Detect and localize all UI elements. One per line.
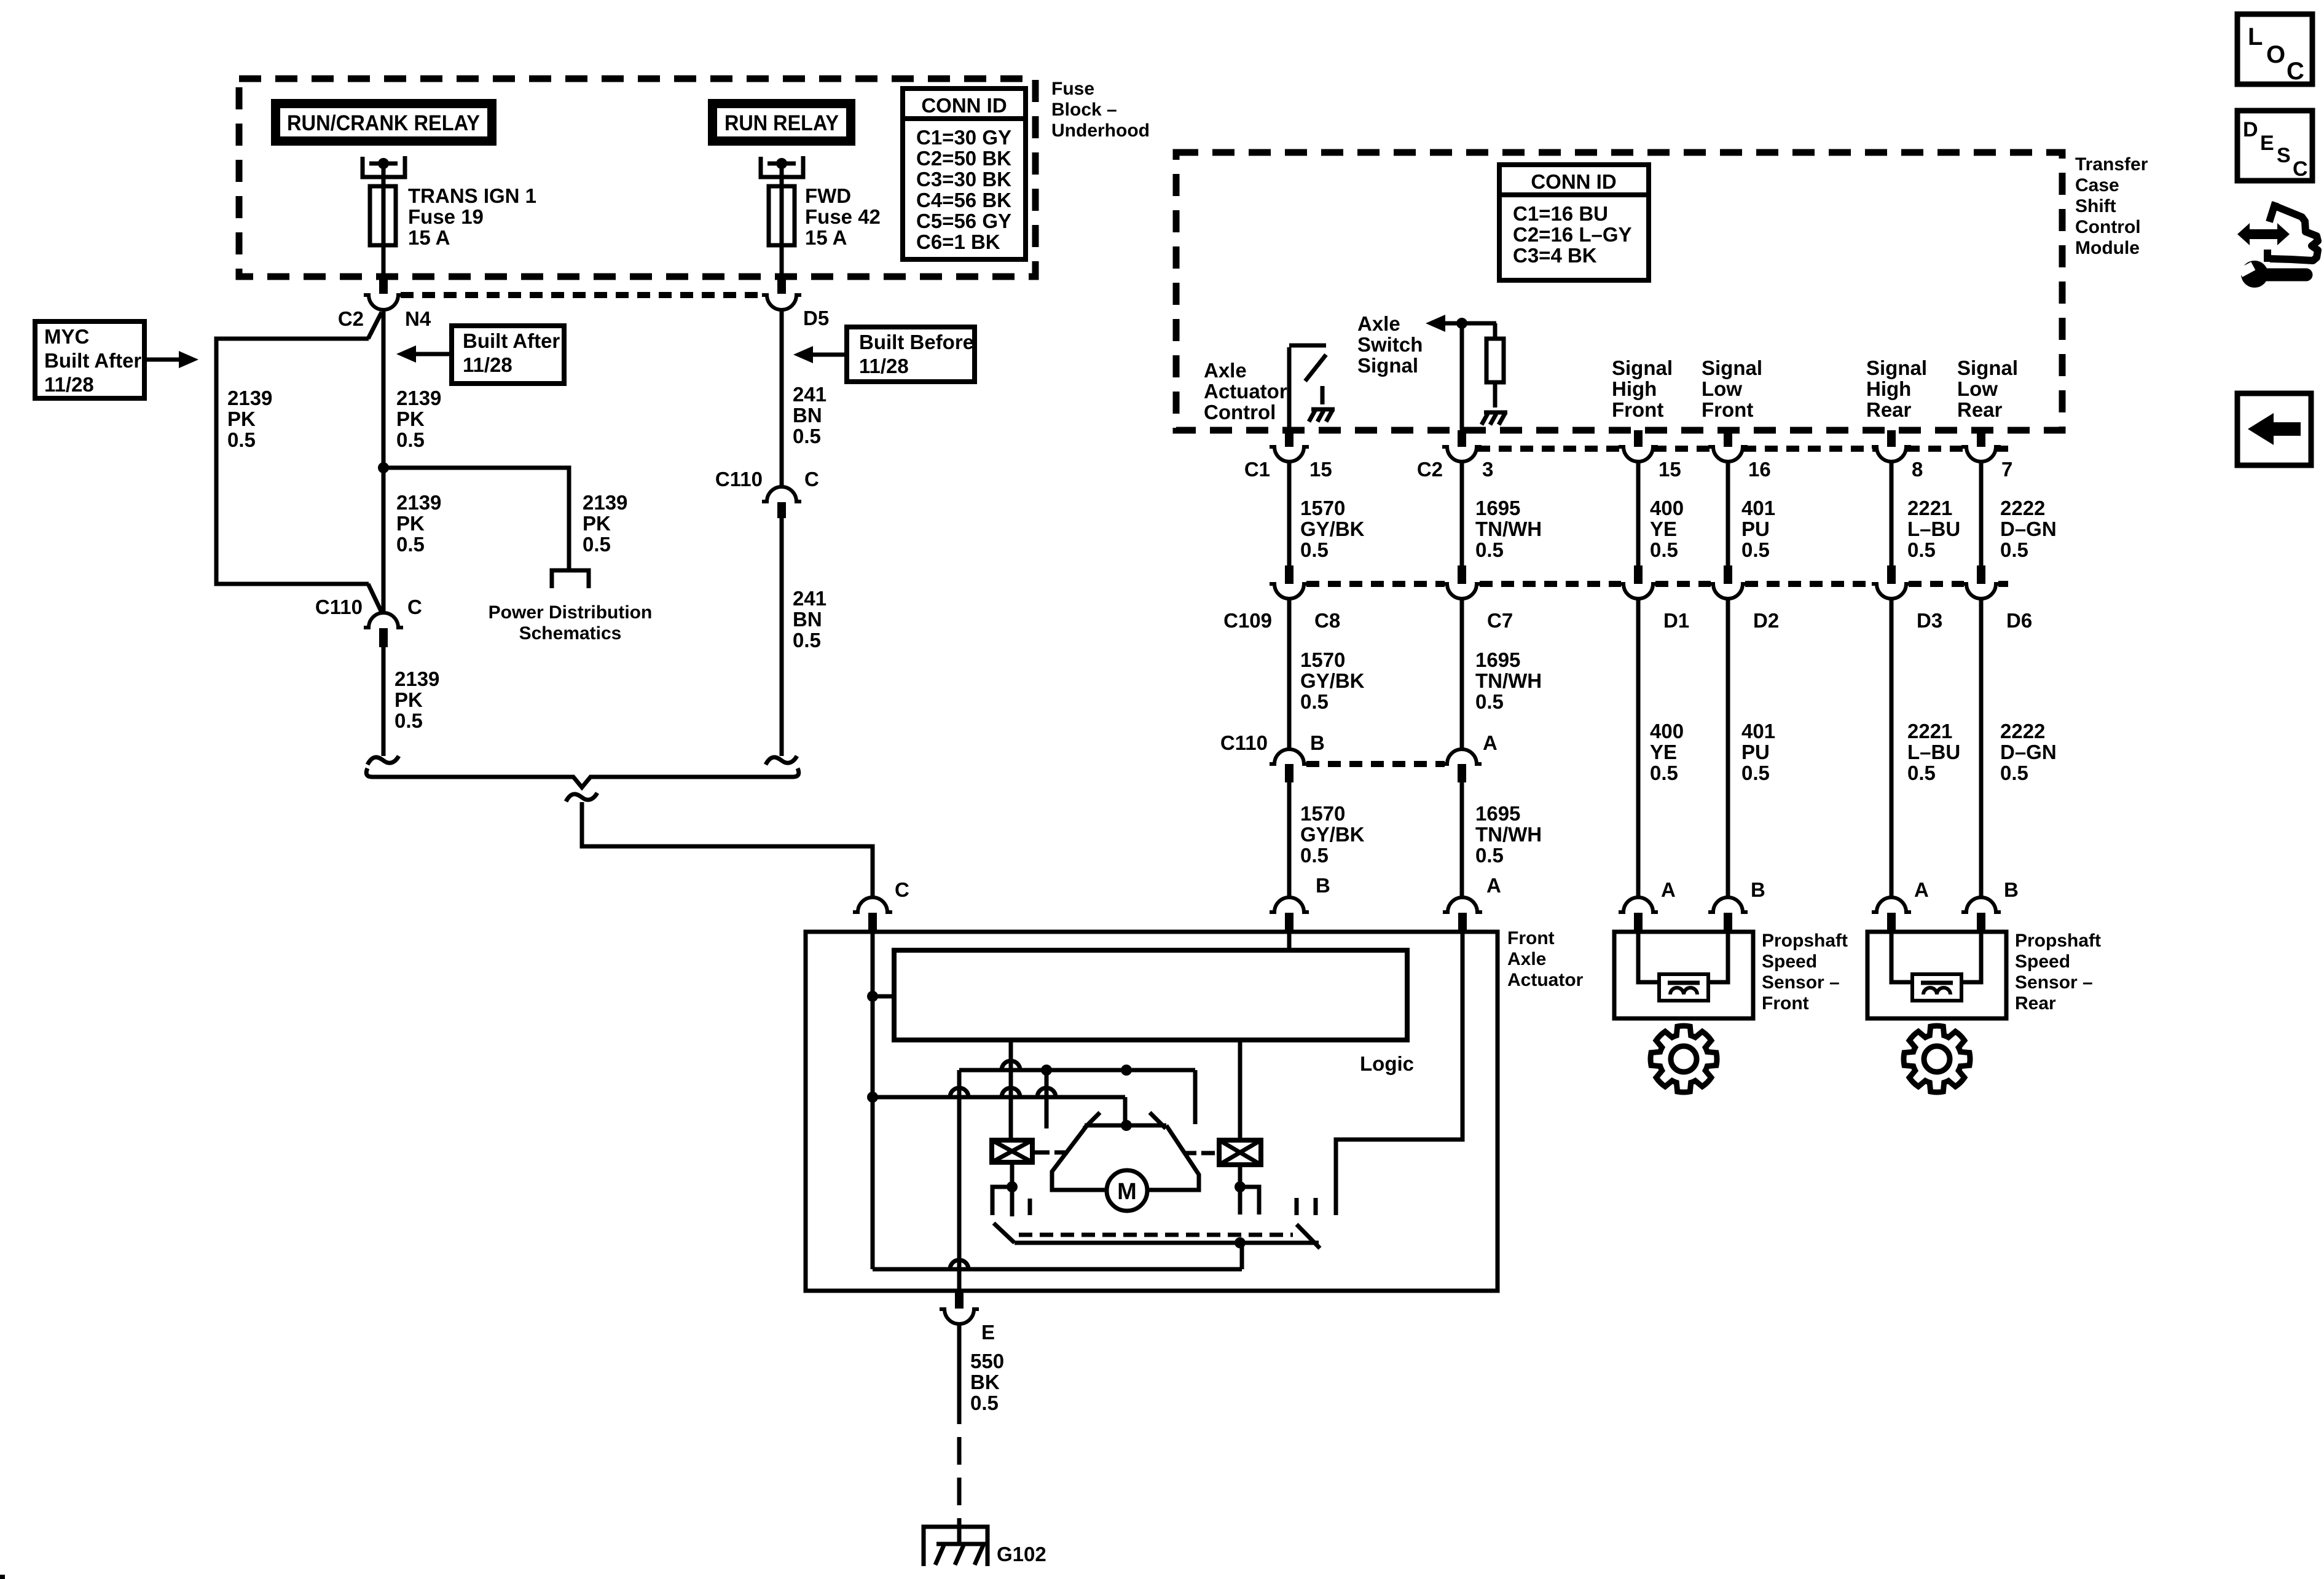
arrow MYC to wire [144, 358, 181, 362]
wire 2139 PK branch to power distribution [383, 468, 569, 570]
connector pin stub at 3078 transfer row [1887, 430, 1896, 447]
wire H3 to lower bar [1240, 1243, 1244, 1269]
svg-text:D: D [2243, 118, 2258, 141]
wire left contact hang [1045, 1070, 1049, 1128]
connector C110 dome A [1442, 749, 1482, 764]
motor M1 [1107, 1170, 1147, 1211]
wire column x2098 upper [1287, 462, 1292, 565]
wire fuse F19 to pin C2 [382, 245, 386, 278]
wire 401 PU long [1726, 599, 1730, 897]
wire column x2379 upper [1460, 462, 1464, 565]
connector pin stub A [1458, 764, 1466, 782]
wire C internal vertical [871, 932, 875, 1269]
connector pin stub C7 [1458, 565, 1466, 584]
svg-text:15: 15 [1659, 458, 1681, 481]
wire column x2666 upper [1636, 462, 1641, 565]
front axle actuator box [806, 932, 1498, 1291]
wire left valve to contacts [1010, 1162, 1015, 1216]
relay K2 output pin bracket [761, 156, 803, 177]
wire B internal [1287, 932, 1292, 950]
gear icon Front [1651, 1026, 1717, 1092]
connector pin stub D2 [1724, 565, 1732, 584]
icon connector outline [2267, 202, 2318, 262]
svg-text:C: C [804, 468, 819, 490]
svg-text:N4: N4 [405, 307, 431, 330]
connector pin stub C actuator [868, 913, 877, 932]
svg-text:A: A [1483, 731, 1498, 754]
fuse F19 TRANS IGN 1 15A [370, 186, 396, 245]
connector C110 dome B [1270, 749, 1309, 764]
wire H1 to motor bar [1123, 1097, 1128, 1125]
motor frame left [1052, 1125, 1107, 1190]
connector terminal 16 transfer row [1708, 447, 1748, 462]
connector pin stub D3 [1887, 565, 1896, 584]
propshaft speed sensor Front box [1614, 932, 1753, 1018]
splice brace [366, 768, 799, 787]
connector pin stub B sensor Rear [1977, 913, 1985, 932]
icon LOC box [2237, 14, 2312, 84]
lower contact bar [1015, 1241, 1319, 1245]
wire resistor to ground [1493, 382, 1498, 408]
dashed connector line transfer row [1477, 446, 1623, 452]
wire 1695 TN/WH lower [1460, 782, 1464, 897]
connector terminal B sensor Rear [1961, 897, 2001, 912]
connector pin stub at 2666 transfer row [1634, 430, 1643, 447]
connector pin stub A sensor Front [1634, 913, 1643, 932]
fuse F42 FWD 15A [769, 186, 795, 245]
wire break symbol center [566, 793, 597, 801]
icon connector view arrow [2248, 229, 2279, 239]
connector pin stub B [1285, 764, 1294, 782]
svg-text:C7: C7 [1487, 609, 1513, 632]
svg-text:Power Distribution: Power Distribution [489, 602, 653, 623]
contact post right extra 2 [1314, 1198, 1318, 1215]
icon back arrow box [2237, 393, 2311, 465]
sensor Front internal wires [1638, 932, 1659, 982]
wire column x3224 upper [1979, 462, 1984, 565]
wire A internal [1336, 932, 1462, 1215]
contact bracket left [992, 1187, 1012, 1215]
wire to resistor [1493, 323, 1498, 339]
wire axle switch signal vertical [1460, 323, 1464, 430]
fuse block underhood dashed enclosure [239, 79, 1035, 277]
svg-text:G102: G102 [997, 1543, 1046, 1565]
junction dot motor bar [1121, 1120, 1132, 1131]
wire 2139 PK main vertical [382, 310, 386, 613]
svg-text:C1: C1 [1244, 458, 1270, 481]
connector terminal A sensor Rear [1872, 897, 1911, 912]
connector terminal C7 [1442, 584, 1482, 599]
transfer case shift control module dashed enclosure [1176, 152, 2062, 430]
connector pin stub B actuator [1285, 913, 1294, 932]
svg-text:A: A [1914, 878, 1929, 901]
hop H1 over contact wire [1037, 1088, 1056, 1097]
transfer case CONN ID table [1499, 165, 1649, 280]
svg-text:B: B [2004, 878, 2019, 901]
connector pin stub B sensor Front [1724, 913, 1732, 932]
connector pin stub D1 [1634, 565, 1643, 584]
svg-text:E: E [2260, 132, 2274, 155]
svg-text:CONN ID: CONN ID [1531, 170, 1616, 193]
contact blade lower right [1297, 1224, 1320, 1248]
junction dot right contact [1235, 1181, 1246, 1192]
wire H1 rail [873, 1095, 1125, 1100]
svg-text:A: A [1486, 874, 1501, 897]
wire relay K2 to fuse F42 [780, 163, 784, 186]
wire H0 corner to E [957, 1070, 962, 1291]
icon DESC box [2237, 111, 2312, 181]
connector C110 dome left [364, 613, 403, 628]
svg-text:Schematics: Schematics [519, 623, 622, 644]
wire column x3078 upper [1890, 462, 1894, 565]
svg-text:7: 7 [2001, 458, 2012, 481]
wire 400 YE long [1636, 599, 1641, 897]
svg-text:Logic: Logic [1360, 1052, 1414, 1075]
svg-text:RUN RELAY: RUN RELAY [724, 111, 839, 135]
contact blade top left [1084, 1112, 1100, 1128]
svg-text:D3: D3 [1917, 609, 1942, 632]
corner artifact mark [0, 1575, 5, 1579]
relay K1 output pin bracket [363, 156, 405, 177]
contact post right extra 1 [1295, 1198, 1299, 1215]
motor reversing bar top [1085, 1124, 1166, 1128]
connector pin stub C110 right [777, 502, 786, 518]
wire 1570 GY/BK lower [1287, 782, 1292, 897]
wire C to logic box [873, 994, 894, 999]
connector terminal C8 [1270, 584, 1309, 599]
svg-text:C110: C110 [715, 468, 763, 490]
junction dot left contact [1007, 1181, 1018, 1192]
svg-text:D2: D2 [1753, 609, 1779, 632]
connector C110 dome right [762, 487, 801, 502]
axle switch signal arrow [1445, 321, 1496, 326]
connector terminal D2 [1708, 584, 1748, 599]
wire 2139 PK loop [216, 339, 369, 584]
svg-text:B: B [1310, 731, 1325, 754]
resistor axle switch signal [1486, 339, 1504, 382]
svg-text:C: C [407, 596, 422, 618]
contact post left extra [1028, 1199, 1032, 1215]
fuse block CONN ID table [903, 89, 1026, 259]
hop H0 over valve wire [1002, 1061, 1020, 1070]
svg-text:C110: C110 [315, 596, 363, 618]
svg-text:C2: C2 [338, 307, 364, 330]
sensor Rear internal wires [1891, 932, 1912, 982]
chassis ground at switch [1321, 386, 1325, 404]
svg-text:O: O [2266, 41, 2285, 68]
svg-text:8: 8 [1912, 458, 1923, 481]
svg-text:A: A [1661, 878, 1676, 901]
svg-text:C110: C110 [1220, 731, 1268, 754]
connector pin stub D5 [777, 277, 786, 294]
svg-text:D5: D5 [803, 307, 829, 329]
connector terminal A actuator [1443, 897, 1482, 912]
wire logic to H0 left [1009, 1040, 1013, 1070]
wire 1570 GY/BK mid [1287, 599, 1292, 749]
sensor Front element [1659, 974, 1708, 1001]
connector pin stub C8 [1285, 565, 1294, 584]
junction dot C to logic [867, 991, 878, 1002]
wire 2139 PK loop diagonal top [368, 312, 382, 339]
svg-text:CONN ID: CONN ID [921, 94, 1007, 117]
sensor Rear element [1912, 974, 1961, 1001]
connector pin stub A actuator [1458, 913, 1467, 932]
mechanical link dashes upper [1034, 1151, 1050, 1155]
svg-text:S: S [2277, 144, 2291, 167]
contact bracket right [1240, 1187, 1259, 1215]
wire column x2812 upper [1726, 462, 1730, 565]
svg-text:D1: D1 [1663, 609, 1689, 632]
svg-text:C2: C2 [1417, 458, 1443, 481]
wire 550 BK dashed [957, 1437, 962, 1527]
relay K2 RUN RELAY box [708, 99, 855, 146]
connector pin stub E [955, 1291, 964, 1309]
junction dot H0 logic [1121, 1065, 1132, 1076]
callout box MYC Built After 11/28 [35, 321, 144, 398]
valve solenoid right [1219, 1140, 1261, 1165]
connector pin stub at 2812 transfer row [1724, 430, 1732, 447]
junction dot lower bar [1235, 1237, 1246, 1248]
connector terminal 15 transfer row [1619, 447, 1658, 462]
ground G102 symbol [924, 1527, 987, 1566]
hop H1 over valve wire [1002, 1088, 1020, 1097]
svg-text:E: E [981, 1321, 995, 1344]
connector terminal 15 transfer row [1270, 447, 1309, 462]
connector terminal B sensor Front [1708, 897, 1748, 912]
svg-text:C1=30 GYC2=50 BKC3=30 BKC4=56: C1=30 GYC2=50 BKC3=30 BKC4=56 BKC5=56 GY… [916, 126, 1011, 253]
dashed connector line C109 row [1306, 581, 1445, 587]
svg-text:B: B [1316, 874, 1330, 897]
switch axle actuator control [1287, 347, 1292, 430]
wire fuse F42 to pin D5 [780, 245, 784, 278]
svg-text:15: 15 [1309, 458, 1332, 481]
wire H3 rail [873, 1267, 1242, 1272]
connector terminal 3 transfer row [1442, 447, 1482, 462]
svg-text:C: C [2287, 58, 2304, 85]
junction dot on 2139 PK [378, 462, 389, 473]
relay K1 RUN/CRANK RELAY box [271, 99, 497, 146]
wire 2222 D-GN long [1979, 599, 1984, 897]
propshaft speed sensor Rear box [1867, 932, 2006, 1018]
svg-text:RUN/CRANK RELAY: RUN/CRANK RELAY [287, 111, 480, 135]
arrow Built Before to wire [812, 353, 847, 357]
wire 2139 PK below C110 [382, 647, 386, 756]
connector pin stub C2 [379, 277, 388, 294]
connector pin stub at 3224 transfer row [1977, 430, 1985, 447]
connector terminal D1 [1619, 584, 1658, 599]
connector terminal 8 transfer row [1872, 447, 1911, 462]
logic box [894, 950, 1407, 1040]
wire 550 BK [957, 1324, 962, 1424]
connector terminal D6 [1961, 584, 2001, 599]
wire merge to actuator [582, 802, 873, 897]
svg-text:16: 16 [1748, 458, 1771, 481]
svg-text:C109: C109 [1223, 609, 1272, 632]
connector terminal A sensor Front [1619, 897, 1658, 912]
wire 2139 PK loop diagonal bottom [368, 584, 382, 612]
wire break symbol right [766, 756, 797, 765]
connector terminal B actuator [1270, 897, 1309, 912]
hop H3 over E wire [950, 1260, 968, 1269]
gear icon Rear [1904, 1026, 1970, 1092]
connector terminal E [940, 1309, 979, 1324]
wire logic to left valve [1009, 1070, 1013, 1141]
wire logic to right valve [1238, 1040, 1242, 1140]
svg-text:M: M [1117, 1179, 1137, 1205]
valve solenoid left [992, 1140, 1032, 1162]
callout box Built After 11/28 [452, 326, 564, 384]
wire 1695 TN/WH mid [1460, 599, 1464, 749]
contact blade lower left [994, 1223, 1015, 1243]
connector pin stub C110 left [379, 628, 388, 647]
chassis ground at resistor [1493, 389, 1498, 408]
off-page symbol power distribution [552, 570, 589, 588]
junction dot C to H1 [867, 1092, 878, 1103]
svg-text:B: B [1751, 878, 1765, 901]
callout box Built Before 11/28 [847, 327, 975, 382]
icon wrench [2241, 261, 2268, 288]
svg-text:3: 3 [1482, 458, 1493, 481]
arrow Built After to wire [415, 352, 452, 356]
wire H0 right contact [1193, 1070, 1198, 1124]
wire H0 rail [959, 1068, 1195, 1073]
wire break symbol left [367, 756, 399, 765]
connector terminal 7 transfer row [1961, 447, 2001, 462]
svg-text:C8: C8 [1314, 609, 1340, 632]
junction dot H0 left contact [1041, 1065, 1052, 1076]
hop H1 over E wire [950, 1088, 968, 1097]
connector terminal D3 [1872, 584, 1911, 599]
svg-text:C: C [2293, 157, 2308, 181]
connector terminal C actuator [853, 897, 892, 912]
dashed connector line C110 row [1306, 761, 1445, 767]
connector pin stub at 2379 transfer row [1458, 430, 1466, 447]
contact blade top right [1150, 1112, 1166, 1128]
wire right valve to contacts [1238, 1165, 1242, 1215]
connector pin stub at 2098 transfer row [1285, 430, 1294, 447]
mechanical link dashes lower [1019, 1233, 1293, 1237]
svg-text:L: L [2248, 23, 2263, 50]
connector pin stub D6 [1977, 565, 1985, 584]
connector D5 terminal [762, 295, 801, 310]
wire 241 BN below C110 [780, 518, 784, 756]
wire relay K1 to fuse F19 [382, 163, 386, 186]
wire 2221 L-BU long [1890, 599, 1894, 897]
motor frame right [1147, 1125, 1199, 1190]
connector pin stub A sensor Rear [1887, 913, 1896, 932]
svg-text:C: C [895, 878, 909, 901]
dashed connector line C2-D5 [401, 292, 764, 298]
connector C2 terminal N4 [364, 295, 403, 310]
svg-text:D6: D6 [2006, 609, 2032, 632]
wire 241 BN vertical [780, 310, 784, 487]
